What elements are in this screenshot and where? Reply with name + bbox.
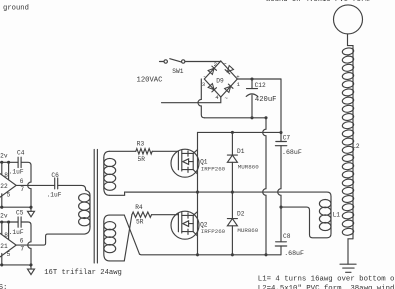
wire U1 pin8 stub	[8, 162, 10, 180]
svg-text:8: 8	[4, 172, 8, 179]
svg-text:3: 3	[202, 81, 205, 88]
svg-text:L1= 4 turns 16awg over bottom: L1= 4 turns 16awg over bottom o	[258, 276, 395, 284]
wire U2 pin1 stub	[1, 222, 3, 235]
node U2 pin8 junction	[7, 220, 10, 223]
node midpoint branch junction	[279, 206, 282, 209]
wire bridge minus drop with hop over AC line	[198, 79, 204, 118]
svg-text:D9: D9	[216, 78, 224, 85]
svg-text:TC4421: TC4421	[0, 243, 8, 250]
svg-text:5: 5	[7, 251, 11, 258]
svg-text:7: 7	[20, 246, 24, 253]
svg-text:5R: 5R	[138, 156, 146, 163]
transformer T1 core	[94, 150, 97, 264]
node U1 pin1 junction	[0, 161, 3, 164]
svg-text:8: 8	[4, 232, 8, 239]
node D2 bottom junction	[231, 253, 234, 256]
wire U1 pin5 down	[1, 194, 3, 207]
svg-text:SW1: SW1	[172, 68, 183, 75]
wire negative bus to rail corner	[205, 117, 267, 119]
wire top bus	[198, 131, 282, 133]
wire U2 ground line	[0, 265, 31, 269]
svg-text:7: 7	[20, 186, 24, 193]
ground U2	[28, 269, 35, 275]
svg-text:MUR860: MUR860	[237, 227, 258, 234]
wire negative rail down with hops	[263, 118, 266, 255]
driver U2 supply line 12v	[0, 221, 18, 223]
diode D9 bottom-left	[208, 83, 216, 91]
bridge rectifier D9 diamond	[204, 61, 237, 97]
node Q2 source to bus junction	[196, 253, 199, 256]
svg-text:L2: L2	[352, 143, 360, 150]
op-amp U1 driver triangle	[0, 169, 16, 201]
node U2 bypass ground junction	[29, 263, 32, 266]
inductor L2 secondary coil	[342, 47, 354, 239]
svg-text:IRFP260: IRFP260	[201, 165, 226, 172]
node D2 top junction	[231, 191, 234, 194]
svg-text:ground: ground	[3, 5, 29, 13]
svg-text:16T trifilar 24awg: 16T trifilar 24awg	[44, 269, 122, 277]
node U2 pin1 junction	[0, 220, 3, 223]
wire C4 to bypass vertical with hop over output	[21, 162, 31, 207]
wire U1 output to C6	[16, 184, 55, 186]
svg-text:IRFP260: IRFP260	[201, 228, 226, 235]
svg-text:C5: C5	[16, 209, 24, 216]
wire R4 to Q2 gate	[152, 214, 179, 216]
svg-text:L1: L1	[333, 212, 341, 219]
capacitor C5	[18, 217, 21, 227]
svg-text:.68uF: .68uF	[282, 149, 302, 156]
resistor R3	[136, 149, 152, 154]
wire X crossover leg 1	[124, 215, 139, 254]
svg-text:6: 6	[20, 178, 24, 185]
svg-text:NOTES:: NOTES:	[0, 284, 7, 289]
wire bottom bus	[140, 253, 282, 256]
svg-text:2: 2	[214, 61, 217, 68]
svg-text:L2=4.5x10" PVC form, 38awg win: L2=4.5x10" PVC form, 38awg windi	[258, 285, 395, 289]
svg-text:C8: C8	[283, 233, 291, 240]
svg-text:R3: R3	[137, 141, 145, 148]
svg-text:.1uF: .1uF	[47, 191, 62, 198]
wire X crossover leg 2	[124, 215, 132, 261]
node midpoint junction	[196, 191, 199, 194]
node U1 pin8 junction	[7, 161, 10, 164]
svg-text:D1: D1	[237, 148, 245, 155]
wire bottom secondary top to X	[109, 214, 124, 216]
diode D9 bottom-right	[224, 84, 232, 92]
wire C7 to C8 rail with hop over midpoint wire	[278, 146, 281, 242]
wire R3 to Q1 gate	[152, 150, 178, 152]
node U1 pin5 ground junction	[0, 206, 3, 209]
wire L2 bottom to earth	[348, 239, 353, 264]
inductor L1 primary coil	[319, 200, 331, 231]
node C12 top junction	[250, 77, 253, 80]
svg-text:12v: 12v	[0, 212, 8, 219]
diode D1	[227, 132, 237, 192]
svg-text:C12: C12	[255, 82, 266, 89]
svg-text:MUR860: MUR860	[238, 164, 259, 171]
node negative bus corner junction	[264, 116, 267, 119]
wire 120VAC hot stub	[160, 61, 164, 63]
diode D2	[227, 192, 237, 255]
node D1 top junction	[231, 131, 234, 134]
transformer T1 gate drive primary	[79, 190, 90, 227]
wire topload stem	[348, 34, 354, 48]
svg-text:wound on 4.5x10 PVC form: wound on 4.5x10 PVC form	[266, 0, 370, 4]
op-amp U2 driver triangle	[0, 229, 16, 261]
wire U2 pin8 stub	[8, 222, 10, 240]
svg-text:.1uF: .1uF	[9, 229, 24, 236]
svg-text:.68uF: .68uF	[284, 250, 304, 257]
transformer T1 bottom secondary	[104, 215, 116, 261]
transistor Q2	[171, 211, 199, 239]
svg-text:R4: R4	[135, 204, 143, 211]
node U1 bypass ground junction	[29, 206, 32, 209]
wire Q1 gate return step	[109, 192, 197, 195]
svg-text:C4: C4	[17, 150, 25, 157]
wire plus rail down to C7	[280, 79, 282, 142]
capacitor C12	[246, 79, 258, 118]
svg-text:12v: 12v	[0, 153, 8, 160]
wire midpoint to L1 top	[126, 192, 331, 200]
node top bus meets plus rail	[279, 131, 282, 134]
ground U1	[28, 211, 35, 217]
capacitor C7	[275, 142, 286, 146]
wire bridge plus output	[237, 78, 281, 80]
wire C6 to GDT primary top	[58, 185, 86, 190]
svg-text:5R: 5R	[136, 219, 144, 226]
wire midpoint branch to L1 bottom	[281, 207, 331, 238]
wire 120VAC neutral to bridge AC2	[162, 97, 221, 103]
svg-text:-: -	[203, 73, 206, 80]
capacitor C8	[275, 242, 286, 246]
wire half-bridge rail	[197, 132, 199, 254]
node C12 bottom junction	[250, 116, 253, 119]
wire U1 ground line	[0, 207, 31, 211]
ground earth symbol	[340, 264, 356, 272]
svg-text:TC4422: TC4422	[0, 183, 8, 190]
capacitor C6	[55, 178, 58, 189]
svg-text:5: 5	[7, 191, 11, 198]
node U2 pin5 ground junction	[0, 263, 3, 266]
topload sphere	[334, 5, 363, 34]
wire bottom secondary bottom to X	[109, 260, 124, 262]
svg-text:420uF: 420uF	[255, 96, 277, 104]
wire U2 output jog to GDT primary bottom	[16, 226, 90, 245]
driver U1 supply line 12v	[0, 161, 18, 163]
wire C5 to bypass vertical with hop over output	[21, 222, 31, 265]
wire C8 to bottom bus	[280, 246, 282, 255]
resistor R4	[132, 212, 152, 217]
switch SW1	[164, 59, 185, 64]
svg-text:C6: C6	[51, 172, 59, 179]
svg-text:.1uF: .1uF	[9, 168, 24, 175]
transistor Q1	[171, 149, 199, 177]
capacitor C4	[18, 157, 21, 167]
wire top secondary to R3	[109, 150, 135, 152]
diode D9 top-right	[225, 65, 233, 73]
transformer T1 top secondary	[104, 151, 116, 195]
wire U1 pin1 stub	[1, 162, 3, 175]
wire switch to bridge AC1	[185, 60, 221, 63]
diode D9 top-left	[208, 66, 216, 74]
wire U2 pin5 down	[1, 254, 3, 265]
svg-text:D2: D2	[237, 211, 245, 218]
svg-text:C7: C7	[283, 134, 291, 141]
svg-text:6: 6	[20, 238, 24, 245]
node negative rail bottom junction	[264, 253, 267, 256]
svg-text:120VAC: 120VAC	[137, 76, 164, 84]
